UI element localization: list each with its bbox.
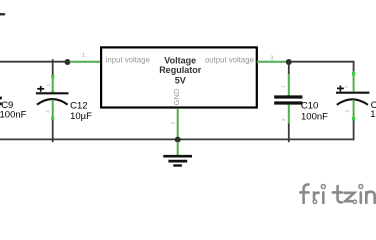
ground symbol pin [177,142,179,156]
svg-text:Regulator: Regulator [159,65,202,75]
wire C11 to rail [353,121,355,141]
capacitor C11 top plate [336,92,369,94]
letter f [304,184,309,202]
svg-text:C12: C12 [70,100,87,111]
pin 1 input of regulator [70,61,102,63]
pin 3 output of regulator [257,61,288,63]
svg-text:5V: 5V [175,75,186,85]
letter i [359,192,362,202]
node junction dot output [286,59,292,65]
plus sign C11 [337,86,344,92]
svg-text:output voltage: output voltage [205,56,254,65]
wire C12 to rail [52,121,54,143]
capacitor C11 bottom pin [353,100,355,121]
letter r [314,192,319,198]
svg-text:10µF: 10µF [370,109,376,120]
plus sign C12 [37,86,44,92]
wire branch to C12 [52,59,54,76]
wire top rail [0,61,66,63]
capacitor C12 bottom plate arc [37,99,68,105]
voltage regulator U1 box [101,47,257,107]
svg-text:10µF: 10µF [70,111,92,122]
capacitor C12 bottom pin [52,100,54,121]
wire output to right capacitor [291,62,354,72]
capacitor C11 bottom plate arc [337,99,368,105]
svg-text:input voltage: input voltage [106,56,150,65]
wire junction to C10 [288,64,290,75]
letter n [366,192,374,203]
svg-text:1: 1 [82,53,85,59]
letter z [345,193,355,201]
capacitor C10 bottom pin [288,105,290,125]
capacitor C12 top pin [52,76,54,94]
capacitor C10 top pin [288,74,290,96]
letter t [338,186,342,202]
node junction dot input [65,59,71,65]
svg-text:100nF: 100nF [301,111,328,122]
letter i [322,192,325,202]
svg-text:GND: GND [172,88,181,105]
svg-text:100nF: 100nF [0,109,27,120]
capacitor C10 plates [274,95,302,98]
wire stub top-left [0,13,4,16]
fritzing watermark [300,184,374,203]
svg-text:C10: C10 [301,100,318,111]
node junction dot ground [175,137,181,143]
svg-text:3: 3 [271,56,274,62]
wire ground rail [0,138,354,140]
pin 2 GND of regulator [177,109,179,138]
capacitor C12 top plate [36,92,69,94]
capacitor C11 top pin [353,71,355,91]
capacitor C9 plates (clipped at left edge) [0,97,2,100]
wire C10 to rail [288,124,290,143]
ground symbol [163,156,192,165]
